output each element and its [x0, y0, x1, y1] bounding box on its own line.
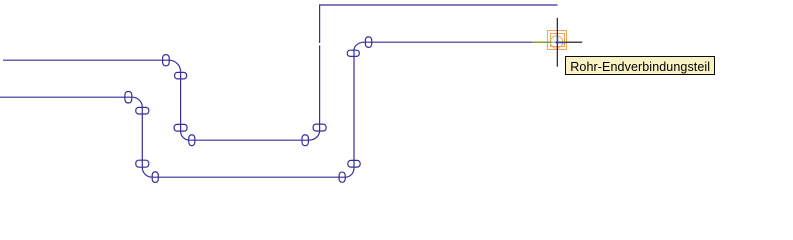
- crosshair horizontal line: [532, 41, 582, 43]
- maroon pick point at center: [556, 42, 558, 44]
- elbow arc pipe1 lower-right of U: [308, 131, 319, 140]
- fitting S9 horizontal stadium above bottom-left elbow: [136, 160, 149, 167]
- fitting S1 vertical stadium at end of line1: [163, 55, 170, 66]
- wire pipe2 second left horizontal run: [0, 96, 133, 98]
- wire pipe2 long bottom horizontal: [152, 176, 346, 178]
- fitting S14 vertical stadium start of cursor run: [365, 37, 371, 48]
- elbow arc pipe2 bottom-right: [346, 168, 355, 177]
- osnap marker inner orange square: [551, 34, 565, 47]
- tooltip Rohr-Endverbindungsteil: [565, 56, 715, 75]
- wire pipe1 left horizontal run: [3, 59, 169, 61]
- fitting S8 horizontal stadium on drop x=142.3: [136, 107, 149, 114]
- fitting S12 horizontal stadium on rise x=354 lower: [348, 160, 360, 167]
- elbow arc pipe1 upper-left: [169, 60, 181, 72]
- osnap aperture outer orange square: [548, 31, 567, 50]
- fitting S4 vertical stadium on U bottom left: [189, 135, 195, 146]
- fitting S13 horizontal stadium on rise x=354 upper: [347, 50, 359, 56]
- wire pipe1 vertical drop x=180.6: [180, 72, 182, 131]
- elbow arc pipe2 upper-left: [133, 97, 143, 107]
- fitting S2 horizontal stadium on drop pipe: [175, 72, 187, 79]
- fitting S5 vertical stadium on U bottom right: [302, 135, 308, 146]
- wire pipe1 vertical rise x=319.6 with top corner: [320, 5, 558, 131]
- fitting S10 vertical stadium on bottom run left: [152, 172, 158, 183]
- elbow arc pipe1 lower-left of U: [181, 131, 190, 140]
- fitting S7 vertical stadium end of line2: [125, 92, 132, 103]
- fitting S11 vertical stadium on bottom run right: [339, 172, 345, 182]
- wire pipe2 vertical drop x=142.3: [141, 107, 143, 167]
- wire pipe1 U bottom horizontal: [190, 139, 309, 141]
- crosshair vertical line: [556, 18, 558, 67]
- fitting S6 horizontal stadium above U-right elbow: [313, 124, 326, 131]
- wire break gap on vertical riser x=319.6: [318, 43, 320, 45]
- elbow arc pipe2 bottom-left: [142, 168, 152, 178]
- blue connection L segment vertical: [557, 37, 559, 42]
- fitting end-connection octagon symbol (highlighted orange): [551, 36, 563, 48]
- wire pipe2 horizontal run to cursor: [364, 41, 532, 43]
- cyan snap tick on line: [552, 41, 556, 43]
- fitting S3 horizontal stadium above U-left elbow: [174, 124, 187, 131]
- blue connection L segment horizontal: [557, 42, 565, 44]
- wire highlighted olive segment before snap point: [532, 41, 556, 43]
- elbow arc pipe2 top-right to horizontal: [354, 42, 364, 50]
- wire pipe2 vertical rise x=354: [353, 50, 355, 168]
